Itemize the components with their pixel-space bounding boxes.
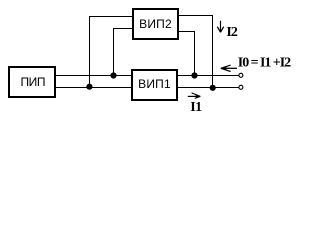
junction dot on upper bus at VIP2 output 2 xyxy=(191,72,197,78)
wire VIP2 output 1 down to lower bus xyxy=(178,16,213,88)
arrow I1 (right) xyxy=(188,93,201,99)
junction dot on upper bus at riser 2 xyxy=(110,72,116,78)
arrow I2 (down) xyxy=(217,21,223,33)
arrow I0 (left) xyxy=(221,65,238,71)
wire VIP2 output 2 down to upper bus xyxy=(178,32,195,76)
wire upper bus (PIP out 1 to right terminal) xyxy=(56,75,239,77)
wire lower bus (PIP out 2 to right terminal) xyxy=(56,87,239,89)
svg-text:I0 = I1 +I2: I0 = I1 +I2 xyxy=(238,55,291,70)
svg-text:I2: I2 xyxy=(226,25,237,40)
wire riser to VIP2 input 1 xyxy=(90,17,134,88)
svg-text:ВИП1: ВИП1 xyxy=(138,77,171,91)
junction dot on lower bus at riser 1 xyxy=(86,84,92,90)
svg-text:ВИП2: ВИП2 xyxy=(139,17,172,31)
terminal circle upper xyxy=(239,73,243,77)
block VIP2 (ВИП2) xyxy=(133,9,178,39)
wire riser to VIP2 input 2 xyxy=(114,29,134,76)
terminal circle lower xyxy=(239,85,243,89)
junction dot on lower bus at VIP2 output 1 xyxy=(210,85,216,91)
block VIP1 (ВИП1) xyxy=(132,70,177,100)
svg-text:I1: I1 xyxy=(190,100,202,115)
block PIP (ПИП) xyxy=(9,67,55,97)
svg-text:ПИП: ПИП xyxy=(20,75,45,89)
